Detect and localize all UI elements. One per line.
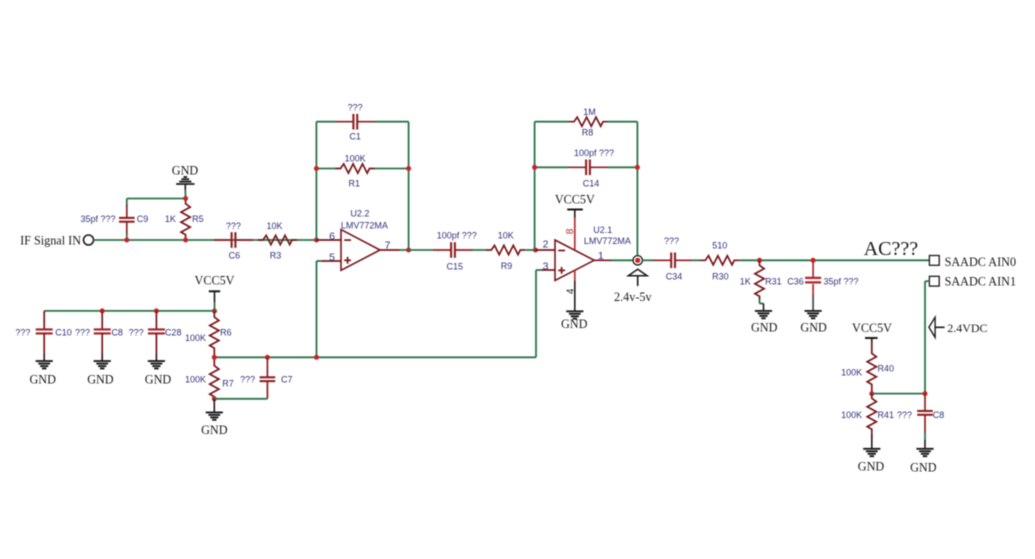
svg-text:IF Signal IN: IF Signal IN	[20, 234, 81, 248]
svg-text:GND: GND	[800, 321, 827, 335]
svg-text:100K: 100K	[185, 333, 206, 343]
svg-text:100K: 100K	[841, 410, 862, 420]
svg-text:C28: C28	[165, 327, 182, 337]
svg-text:100K: 100K	[185, 375, 206, 385]
svg-text:2.4VDC: 2.4VDC	[947, 321, 987, 335]
svg-text:C6: C6	[229, 251, 241, 261]
svg-text:R9: R9	[501, 261, 513, 271]
svg-text:1: 1	[598, 250, 604, 262]
svg-text:100K: 100K	[345, 153, 366, 163]
svg-text:GND: GND	[751, 321, 778, 335]
svg-text:GND: GND	[561, 317, 588, 331]
svg-text:???: ???	[348, 102, 363, 112]
svg-text:C8: C8	[933, 410, 945, 420]
svg-text:R8: R8	[582, 128, 594, 138]
svg-text:R5: R5	[192, 214, 204, 224]
svg-text:AC???: AC???	[864, 238, 919, 260]
svg-text:C7: C7	[281, 374, 293, 384]
svg-text:???: ???	[897, 410, 912, 420]
svg-text:C14: C14	[583, 179, 600, 189]
svg-text:R30: R30	[712, 271, 729, 281]
svg-text:R41: R41	[877, 410, 894, 420]
svg-text:2: 2	[543, 239, 549, 251]
svg-text:100pf ???: 100pf ???	[574, 148, 614, 158]
svg-text:R3: R3	[270, 251, 282, 261]
svg-text:R7: R7	[222, 379, 234, 389]
svg-text:C34: C34	[666, 271, 683, 281]
svg-text:???: ???	[664, 236, 679, 246]
svg-text:R31: R31	[765, 277, 782, 287]
svg-text:GND: GND	[145, 373, 172, 387]
svg-text:GND: GND	[29, 373, 56, 387]
svg-text:C10: C10	[55, 327, 72, 337]
svg-text:???: ???	[240, 374, 255, 384]
svg-text:8: 8	[564, 228, 576, 234]
svg-text:SAADC AIN1: SAADC AIN1	[945, 275, 1016, 289]
svg-text:SAADC AIN0: SAADC AIN0	[945, 255, 1016, 269]
svg-text:C1: C1	[349, 132, 361, 142]
svg-text:???: ???	[129, 327, 144, 337]
svg-text:10K: 10K	[498, 230, 514, 240]
svg-text:100K: 100K	[841, 367, 862, 377]
svg-text:GND: GND	[858, 459, 885, 473]
svg-text:4: 4	[566, 288, 577, 294]
svg-text:VCC5V: VCC5V	[555, 192, 595, 206]
svg-text:R40: R40	[877, 364, 894, 374]
svg-text:GND: GND	[201, 423, 228, 437]
svg-text:1K: 1K	[740, 277, 751, 287]
svg-text:7: 7	[385, 240, 391, 252]
svg-text:R6: R6	[220, 327, 232, 337]
svg-text:???: ???	[226, 221, 241, 231]
svg-text:C8: C8	[111, 327, 123, 337]
svg-text:1M: 1M	[583, 107, 596, 117]
svg-text:LMV772MA: LMV772MA	[341, 220, 388, 230]
svg-text:LMV772MA: LMV772MA	[584, 236, 631, 246]
svg-text:GND: GND	[910, 460, 937, 474]
svg-text:???: ???	[15, 327, 30, 337]
svg-text:U2.2: U2.2	[350, 209, 369, 219]
svg-text:???: ???	[75, 327, 90, 337]
svg-text:C36: C36	[787, 277, 804, 287]
svg-text:C15: C15	[447, 261, 464, 271]
svg-text:5: 5	[329, 251, 335, 263]
svg-text:VCC5V: VCC5V	[195, 274, 235, 288]
svg-text:GND: GND	[172, 163, 199, 177]
svg-text:100pf ???: 100pf ???	[437, 231, 477, 241]
svg-text:35pf ???: 35pf ???	[80, 214, 115, 224]
svg-text:1K: 1K	[165, 214, 176, 224]
svg-text:35pf ???: 35pf ???	[823, 277, 858, 287]
svg-text:R1: R1	[349, 178, 361, 188]
svg-text:3: 3	[543, 260, 549, 272]
svg-text:VCC5V: VCC5V	[852, 321, 892, 335]
svg-text:C9: C9	[137, 214, 149, 224]
svg-text:U2.1: U2.1	[593, 225, 612, 235]
svg-text:10K: 10K	[266, 221, 282, 231]
svg-text:510: 510	[712, 241, 727, 251]
svg-text:GND: GND	[87, 373, 114, 387]
svg-text:6: 6	[329, 231, 335, 243]
svg-text:2.4v-5v: 2.4v-5v	[614, 290, 652, 304]
